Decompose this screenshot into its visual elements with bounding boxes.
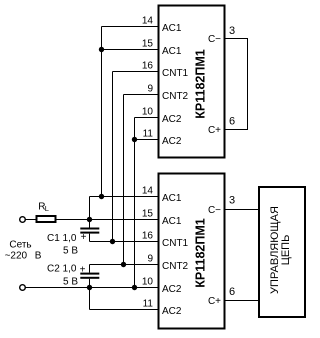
svg-text:5 В: 5 В bbox=[63, 277, 78, 288]
svg-text:AC1: AC1 bbox=[162, 216, 182, 227]
svg-text:C1 1,0: C1 1,0 bbox=[47, 233, 77, 244]
svg-text:10: 10 bbox=[142, 277, 154, 288]
svg-text:+: + bbox=[80, 265, 86, 276]
svg-text:10: 10 bbox=[142, 107, 154, 118]
svg-text:AC1: AC1 bbox=[162, 193, 182, 204]
svg-text:3: 3 bbox=[229, 25, 235, 37]
svg-text:15: 15 bbox=[142, 39, 154, 50]
svg-text:КР1182ПМ1: КР1182ПМ1 bbox=[194, 218, 208, 287]
svg-text:AC2: AC2 bbox=[162, 284, 182, 295]
svg-text:14: 14 bbox=[142, 186, 154, 197]
svg-text:CNT1: CNT1 bbox=[162, 68, 189, 79]
svg-text:9: 9 bbox=[147, 254, 153, 265]
svg-text:6: 6 bbox=[229, 286, 235, 298]
svg-text:C−: C− bbox=[208, 34, 221, 45]
svg-text:C+: C+ bbox=[208, 125, 221, 136]
svg-text:CNT2: CNT2 bbox=[162, 261, 189, 272]
svg-text:11: 11 bbox=[143, 129, 154, 140]
svg-text:C+: C+ bbox=[208, 296, 221, 307]
svg-text:15: 15 bbox=[142, 209, 154, 220]
svg-text:AC2: AC2 bbox=[162, 136, 182, 147]
svg-text:14: 14 bbox=[142, 16, 154, 27]
svg-text:5 В: 5 В bbox=[63, 246, 78, 257]
svg-text:Сеть: Сеть bbox=[9, 240, 31, 251]
svg-text:16: 16 bbox=[142, 231, 154, 242]
svg-text:AC2: AC2 bbox=[162, 306, 182, 317]
svg-text:3: 3 bbox=[229, 195, 235, 207]
svg-text:CNT2: CNT2 bbox=[162, 91, 189, 102]
svg-text:C−: C− bbox=[208, 205, 221, 216]
svg-text:AC1: AC1 bbox=[162, 46, 182, 57]
svg-text:+: + bbox=[81, 232, 87, 243]
svg-text:16: 16 bbox=[142, 61, 154, 72]
svg-text:9: 9 bbox=[147, 84, 153, 95]
svg-text:C2 1,0: C2 1,0 bbox=[47, 264, 77, 275]
svg-text:КР1182ПМ1: КР1182ПМ1 bbox=[194, 49, 208, 118]
svg-text:CNT1: CNT1 bbox=[162, 238, 189, 249]
svg-text:ЦЕПЬ: ЦЕПЬ bbox=[280, 235, 292, 266]
svg-text:В: В bbox=[35, 251, 42, 262]
svg-text:AC2: AC2 bbox=[162, 114, 182, 125]
svg-text:~220: ~220 bbox=[5, 251, 28, 262]
svg-text:L: L bbox=[45, 204, 49, 213]
svg-text:11: 11 bbox=[143, 299, 154, 310]
svg-text:AC1: AC1 bbox=[162, 23, 182, 34]
svg-text:6: 6 bbox=[229, 116, 235, 128]
